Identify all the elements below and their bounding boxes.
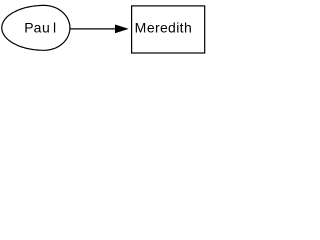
node Paul (ellipse) bbox=[2, 5, 70, 50]
background bbox=[0, 0, 208, 59]
node Meredith (box) bbox=[132, 6, 205, 53]
wire edge Paul->Meredith shaft bbox=[70, 28, 116, 30]
svg-text:Meredith: Meredith bbox=[135, 19, 192, 35]
arrowhead bbox=[115, 25, 129, 34]
